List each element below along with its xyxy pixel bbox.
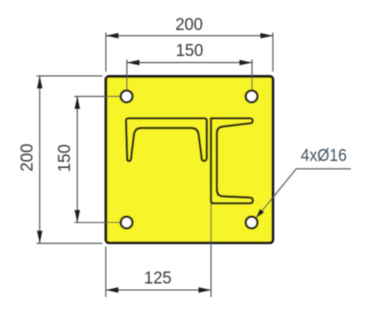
- leader arrowhead: [256, 209, 265, 219]
- base plate: [106, 76, 273, 242]
- arrowhead right (bottom 125): [199, 287, 212, 292]
- bolt hole top-right: [246, 91, 258, 103]
- extension line left-bottom (for left 200): [37, 242, 103, 244]
- dimension line 150 left: [76, 96, 78, 222]
- extension line bottom-left (for bottom 125): [105, 247, 107, 298]
- svg-text:125: 125: [144, 268, 172, 288]
- extension line from top-left hole left (for left 150): [74, 95, 119, 97]
- arrowhead top (left 200): [37, 76, 42, 89]
- extension line top-left (for top 200): [105, 33, 107, 72]
- arrowhead bottom (left 200): [37, 231, 42, 244]
- arrowhead top (left 150): [75, 96, 80, 109]
- arrowhead left (top 150): [127, 60, 139, 65]
- svg-text:4xØ16: 4xØ16: [301, 145, 347, 165]
- extension line from top-right hole up (for top 150): [251, 60, 253, 91]
- extension line from bottom-left hole left (for left 150): [74, 222, 119, 224]
- extension line from channel web down (for bottom 125): [210, 204, 212, 297]
- dimension line 150 top: [127, 62, 252, 64]
- extension line from top-left hole up (for top 150): [126, 60, 128, 91]
- bolt hole top-left: [121, 91, 133, 103]
- dimension line 200 top: [106, 35, 273, 37]
- bolt hole bottom-left: [121, 217, 133, 229]
- arrowhead bottom (left 150): [75, 210, 80, 223]
- channel profile left (opening down): [126, 118, 207, 161]
- arrowhead left (top 200): [106, 33, 119, 38]
- svg-text:200: 200: [175, 14, 203, 34]
- svg-text:150: 150: [54, 144, 74, 172]
- svg-text:200: 200: [16, 144, 36, 172]
- bolt hole bottom-right: [246, 217, 258, 229]
- dimension line 125 bottom: [106, 289, 211, 291]
- svg-text:150: 150: [176, 40, 204, 60]
- extension line top-right (for top 200): [272, 33, 274, 72]
- dimension line 200 left: [39, 76, 41, 243]
- leader line to bottom-right hole: [256, 169, 351, 218]
- channel profile right (opening right): [211, 118, 253, 203]
- arrowhead right (top 150): [240, 60, 253, 65]
- arrowhead left (bottom 125): [106, 287, 119, 292]
- arrowhead right (top 200): [260, 33, 273, 38]
- extension line left-top (for left 200): [37, 75, 103, 77]
